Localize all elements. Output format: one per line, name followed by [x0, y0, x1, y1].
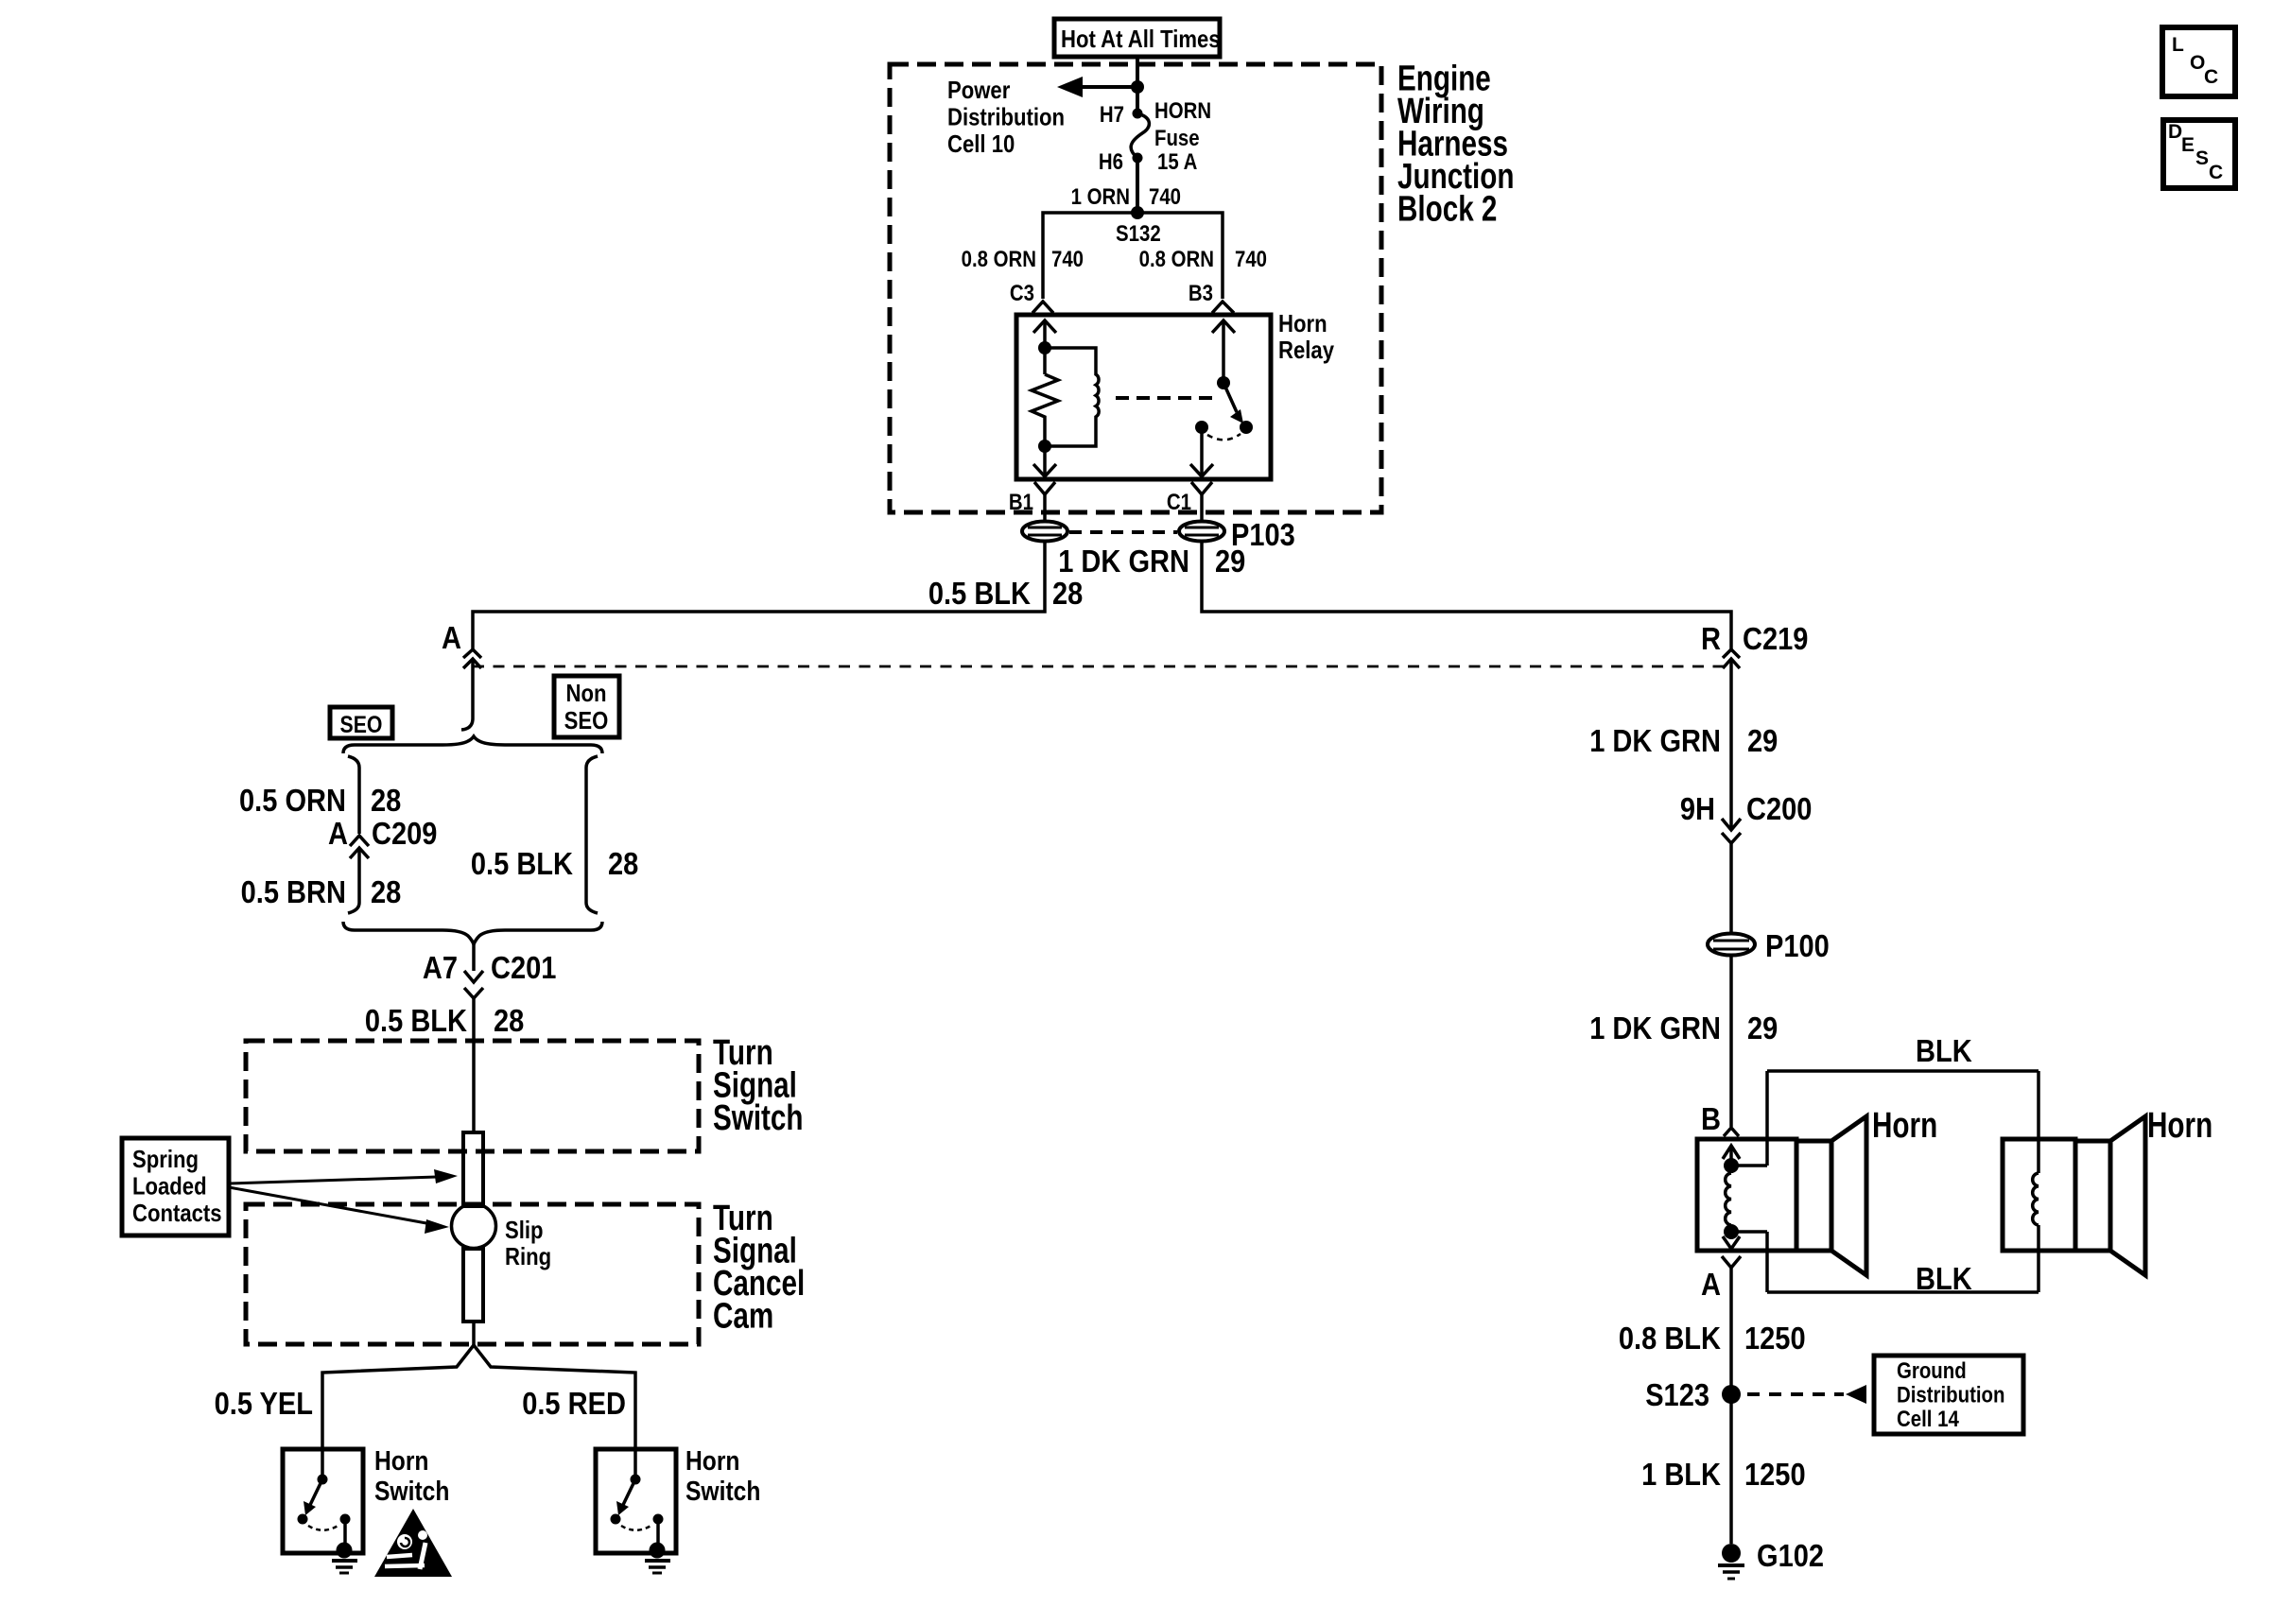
svg-text:BLK: BLK: [1916, 1261, 1972, 1296]
svg-text:0.8 ORN: 0.8 ORN: [962, 247, 1036, 272]
svg-text:B: B: [1701, 1101, 1721, 1136]
svg-text:BLK: BLK: [1916, 1033, 1972, 1068]
svg-text:Relay: Relay: [1278, 336, 1334, 364]
svg-text:Power: Power: [947, 76, 1010, 104]
svg-text:Spring: Spring: [132, 1145, 199, 1173]
svg-text:Horn: Horn: [2147, 1106, 2212, 1146]
svg-text:740: 740: [1235, 247, 1267, 272]
svg-text:SEO: SEO: [564, 706, 609, 734]
svg-text:0.5 RED: 0.5 RED: [522, 1386, 626, 1421]
svg-text:A: A: [328, 816, 348, 851]
svg-text:C3: C3: [1010, 281, 1034, 306]
svg-text:0.5 ORN: 0.5 ORN: [239, 783, 346, 818]
svg-text:740: 740: [1051, 247, 1084, 272]
svg-text:S: S: [2195, 147, 2209, 169]
svg-text:29: 29: [1747, 723, 1778, 758]
svg-text:Horn: Horn: [1872, 1106, 1937, 1146]
svg-text:Loaded: Loaded: [132, 1172, 207, 1201]
svg-text:S123: S123: [1645, 1377, 1709, 1412]
svg-text:Horn: Horn: [374, 1446, 429, 1477]
svg-text:Switch: Switch: [713, 1098, 804, 1138]
svg-text:Cell 14: Cell 14: [1897, 1407, 1959, 1432]
svg-text:9H: 9H: [1680, 791, 1715, 826]
svg-text:Ring: Ring: [505, 1242, 551, 1270]
svg-text:Fuse: Fuse: [1154, 126, 1200, 151]
svg-text:Horn: Horn: [1278, 309, 1327, 337]
svg-text:D: D: [2168, 121, 2182, 143]
svg-text:C: C: [2204, 66, 2218, 88]
svg-text:28: 28: [371, 874, 401, 909]
svg-text:C219: C219: [1743, 621, 1808, 656]
svg-text:Switch: Switch: [685, 1477, 760, 1507]
svg-text:Distribution: Distribution: [1897, 1383, 2005, 1408]
svg-text:H7: H7: [1100, 102, 1124, 128]
svg-text:L: L: [2172, 34, 2184, 56]
svg-text:1250: 1250: [1744, 1457, 1806, 1492]
svg-text:Horn: Horn: [685, 1446, 740, 1477]
svg-text:Ground: Ground: [1897, 1358, 1967, 1384]
svg-text:P100: P100: [1765, 928, 1830, 963]
svg-text:Switch: Switch: [374, 1477, 449, 1507]
svg-text:0.5 BLK: 0.5 BLK: [365, 1003, 467, 1038]
svg-text:Distribution: Distribution: [947, 103, 1065, 131]
svg-text:1250: 1250: [1744, 1321, 1806, 1356]
svg-text:1 DK GRN: 1 DK GRN: [1058, 544, 1189, 579]
svg-text:A: A: [1701, 1267, 1721, 1302]
svg-text:1 DK GRN: 1 DK GRN: [1589, 723, 1721, 758]
svg-text:Cam: Cam: [713, 1297, 773, 1337]
svg-text:29: 29: [1747, 1011, 1778, 1045]
svg-text:G102: G102: [1757, 1538, 1824, 1573]
svg-text:SEO: SEO: [340, 712, 383, 738]
svg-text:B3: B3: [1189, 281, 1213, 306]
svg-text:1 ORN: 1 ORN: [1071, 184, 1130, 210]
svg-text:28: 28: [1052, 576, 1083, 611]
svg-text:C209: C209: [372, 816, 437, 851]
svg-text:Block 2: Block 2: [1397, 190, 1497, 230]
svg-text:Cell 10: Cell 10: [947, 130, 1015, 158]
svg-text:C201: C201: [491, 950, 556, 985]
svg-text:0.5 BRN: 0.5 BRN: [241, 874, 346, 909]
svg-text:Contacts: Contacts: [132, 1199, 222, 1227]
svg-text:A7: A7: [423, 950, 458, 985]
svg-text:0.5 BLK: 0.5 BLK: [928, 576, 1031, 611]
svg-text:A: A: [442, 620, 461, 655]
svg-text:H6: H6: [1099, 149, 1123, 175]
svg-text:740: 740: [1149, 184, 1181, 210]
svg-text:S132: S132: [1116, 221, 1161, 247]
svg-text:Non: Non: [566, 679, 607, 707]
svg-text:0.5 BLK: 0.5 BLK: [471, 846, 573, 881]
svg-text:0.8 BLK: 0.8 BLK: [1619, 1321, 1721, 1356]
svg-text:O: O: [2190, 52, 2205, 74]
svg-text:1 DK GRN: 1 DK GRN: [1589, 1011, 1721, 1045]
svg-text:R: R: [1701, 621, 1721, 656]
svg-text:C1: C1: [1167, 490, 1191, 515]
svg-text:1 BLK: 1 BLK: [1641, 1457, 1721, 1492]
svg-text:C200: C200: [1746, 791, 1812, 826]
svg-text:29: 29: [1215, 544, 1245, 579]
svg-text:28: 28: [371, 783, 401, 818]
svg-text:B1: B1: [1009, 490, 1033, 515]
svg-text:Slip: Slip: [505, 1216, 544, 1244]
svg-text:C: C: [2209, 162, 2223, 183]
svg-text:E: E: [2181, 134, 2195, 156]
svg-text:28: 28: [608, 846, 638, 881]
svg-text:HORN: HORN: [1154, 98, 1211, 124]
svg-text:Hot At All Times: Hot At All Times: [1061, 25, 1221, 53]
svg-text:0.5 YEL: 0.5 YEL: [215, 1386, 313, 1421]
svg-text:15 A: 15 A: [1157, 149, 1197, 175]
svg-text:0.8 ORN: 0.8 ORN: [1139, 247, 1214, 272]
svg-text:28: 28: [494, 1003, 524, 1038]
